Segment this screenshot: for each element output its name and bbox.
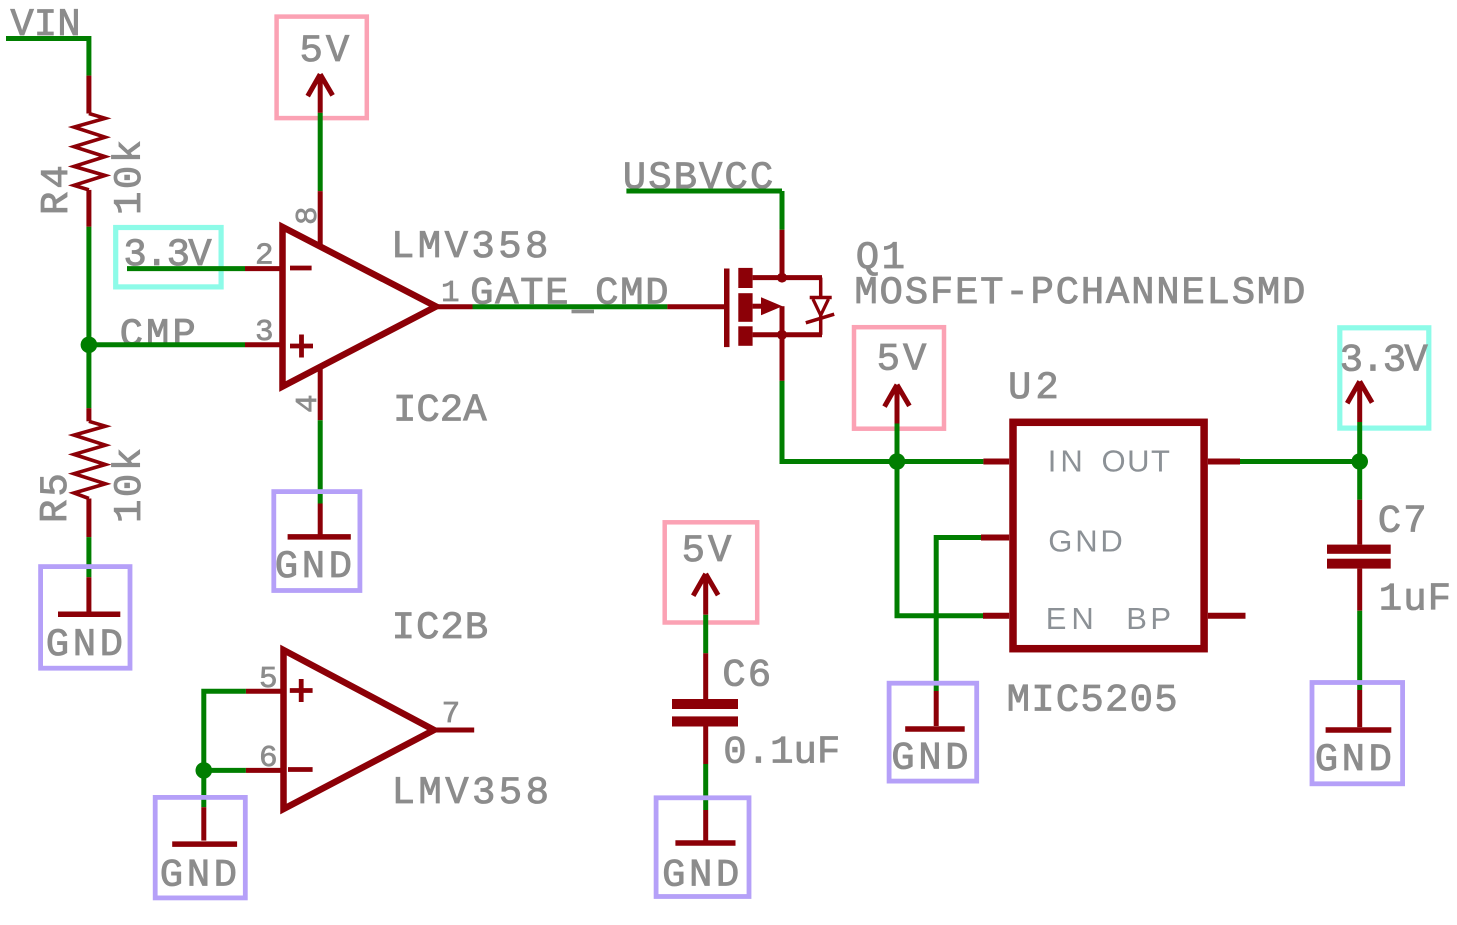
wire USBVCC horizontal <box>626 189 782 194</box>
ground symbol IC2B stem <box>201 807 206 840</box>
svg-text:10k: 10k <box>108 137 152 215</box>
svg-text:5V: 5V <box>682 529 735 573</box>
ground symbol C6 bar <box>675 840 735 846</box>
ground symbol U2 stem <box>934 691 939 726</box>
transistor Q1 top junction dot <box>777 273 787 283</box>
capacitor C6 top plate <box>672 699 738 709</box>
op-amp IC2A <box>283 227 437 387</box>
svg-text:GND: GND <box>160 854 241 898</box>
body diode triangle <box>813 299 829 315</box>
wire GND pin corner <box>936 538 981 692</box>
svg-text:C7: C7 <box>1378 500 1429 544</box>
pin 4 stub <box>318 366 323 420</box>
svg-text:8: 8 <box>291 206 326 225</box>
ground symbol C6 box <box>656 798 749 897</box>
wire drain lead <box>780 230 785 278</box>
svg-text:LMV358: LMV358 <box>391 225 552 269</box>
pin 6 stub <box>246 768 282 773</box>
transistor Q1 source arrow stub <box>753 304 763 309</box>
node 5V junction <box>889 453 906 470</box>
wire junction to EN corner <box>897 462 983 616</box>
transistor Q1 channel top <box>738 268 752 288</box>
resistor R4 <box>74 114 105 190</box>
svg-text:5V: 5V <box>300 29 353 73</box>
label GATE_CMD underscore <box>572 310 595 314</box>
transistor Q1 bottom junction dot <box>777 330 787 340</box>
svg-text:GND: GND <box>1048 524 1125 559</box>
IC U2 body <box>1013 422 1204 648</box>
svg-text:CMP: CMP <box>120 313 199 357</box>
svg-text:10k: 10k <box>108 445 152 523</box>
ground symbol C7 bar <box>1326 727 1392 733</box>
svg-text:0.1uF: 0.1uF <box>723 731 840 775</box>
svg-text:IN: IN <box>1048 444 1087 479</box>
svg-text:5V: 5V <box>877 338 930 382</box>
wire IC2B junction to ground <box>201 770 206 807</box>
transistor Q1 source arrow <box>761 297 782 315</box>
wire CMP node to R5 <box>86 345 91 408</box>
supply 3.3V label box left <box>116 228 221 287</box>
capacitor C7 bottom lead <box>1357 569 1362 611</box>
svg-text:GND: GND <box>662 853 743 897</box>
supply 3.3V arrow <box>1347 381 1372 422</box>
svg-text:3.3V: 3.3V <box>1340 338 1429 382</box>
capacitor C6 bottom plate <box>672 716 738 726</box>
svg-text:MOSFET-PCHANNELSMD: MOSFET-PCHANNELSMD <box>854 271 1307 315</box>
svg-text:IC2A: IC2A <box>393 389 487 433</box>
transistor Q1 channel middle <box>738 293 752 322</box>
supply 3.3V right box <box>1340 328 1429 428</box>
wire USBVCC vertical <box>780 191 785 230</box>
wire GATE_CMD <box>473 304 668 309</box>
wire R5 top lead <box>86 408 91 421</box>
wire 5V mid to junction <box>895 424 900 462</box>
capacitor C7 bottom plate <box>1327 559 1391 569</box>
op-amp IC2B <box>284 650 435 809</box>
ground symbol C7 box <box>1312 683 1403 784</box>
ground symbol U2 bar <box>905 726 965 732</box>
svg-text:OUT: OUT <box>1102 444 1172 479</box>
supply 5V mid box <box>854 327 944 429</box>
node OUT junction <box>1351 453 1368 470</box>
pin 2 stub <box>245 266 281 271</box>
svg-text:GND: GND <box>1315 738 1396 782</box>
transistor Q1 gate bar <box>724 269 730 348</box>
op-amp IC2A plus <box>290 335 313 358</box>
svg-text:U2: U2 <box>1008 366 1063 410</box>
pin GND stub <box>981 535 1009 541</box>
transistor Q1 bottom connection <box>753 332 822 337</box>
capacitor C7 top lead <box>1357 500 1362 545</box>
wire junction to IN <box>897 459 983 464</box>
wire 5V to pin8 <box>318 113 323 191</box>
wire 3.3V to pin2 <box>127 266 245 271</box>
supply 5V top arrow <box>308 74 333 113</box>
ground symbol IC2A box <box>274 492 360 591</box>
pin 5 stub <box>246 689 282 694</box>
pin IN stub <box>983 459 1009 465</box>
supply 5V C6 arrow <box>693 574 718 615</box>
wire R5 bottom lead <box>86 499 91 538</box>
wire VIN vertical green <box>86 36 91 76</box>
body diode cathode bar <box>810 296 832 300</box>
svg-text:MIC5205: MIC5205 <box>1007 679 1179 723</box>
svg-text:7: 7 <box>442 697 461 732</box>
supply 5V C6 box <box>665 522 758 622</box>
wire pin5 loop <box>204 691 246 770</box>
transistor Q1 drain lead down <box>780 335 785 381</box>
wire C7 to ground <box>1357 611 1362 690</box>
op-amp IC2B plus <box>290 679 313 702</box>
op-amp IC2A minus <box>290 266 312 271</box>
capacitor C7 top plate <box>1327 545 1391 554</box>
wire Q1 to IN corner <box>782 381 897 462</box>
wire CMP to pin3 <box>89 342 245 347</box>
transistor Q1 top connection <box>753 275 822 280</box>
supply 5V top box <box>277 17 367 119</box>
svg-text:GND: GND <box>891 736 972 780</box>
ground symbol IC2A stem <box>318 504 323 535</box>
pin BP stub <box>1208 613 1246 619</box>
body diode anode bar <box>806 314 834 323</box>
wire R4 to CMP node <box>86 227 91 345</box>
wire pin4 to ground <box>318 420 323 503</box>
transistor Q1 source vertical <box>780 306 785 335</box>
ground symbol R5 box <box>41 567 130 669</box>
svg-text:LMV358: LMV358 <box>392 771 553 815</box>
pin EN stub <box>983 613 1009 619</box>
body diode vertical top <box>819 278 823 297</box>
pin 8 stub <box>318 191 323 246</box>
wire VIN horizontal <box>6 36 89 41</box>
supply 5V mid arrow <box>885 385 910 424</box>
wire R4 bottom lead <box>86 190 91 227</box>
wire R4 top lead <box>86 76 91 114</box>
svg-text:R5: R5 <box>34 470 78 523</box>
pin 1 stub <box>436 304 473 309</box>
svg-text:IC2B: IC2B <box>392 606 490 650</box>
pin 3 stub <box>245 342 281 347</box>
ground symbol R5 bar <box>58 612 120 618</box>
ground symbol R5 stem <box>86 577 91 612</box>
ground symbol U2 box <box>889 683 977 781</box>
wire R5 to ground <box>86 537 91 577</box>
node IC2B junction <box>196 762 213 779</box>
pin OUT stub <box>1208 459 1240 465</box>
capacitor C6 bottom lead <box>703 727 708 765</box>
wire pin6 <box>204 768 246 773</box>
svg-text:GND: GND <box>275 545 356 589</box>
svg-text:1uF: 1uF <box>1379 578 1452 622</box>
svg-text:C6: C6 <box>722 654 773 698</box>
ground symbol IC2B box <box>155 797 245 898</box>
svg-text:R4: R4 <box>35 162 79 215</box>
svg-text:2: 2 <box>255 239 274 274</box>
svg-text:4: 4 <box>291 394 326 413</box>
capacitor C6 top lead <box>703 653 708 699</box>
svg-text:3: 3 <box>255 315 274 350</box>
wire junction to C7 <box>1357 462 1362 500</box>
body diode vertical bottom <box>819 315 823 335</box>
svg-text:EN: EN <box>1046 601 1099 636</box>
pin 7 stub <box>434 728 474 733</box>
wire 3.3V to junction <box>1357 422 1362 462</box>
wire gate stub <box>667 304 724 309</box>
resistor R5 <box>74 421 105 498</box>
ground symbol IC2B bar <box>172 841 237 847</box>
ground symbol IC2A bar <box>288 534 351 540</box>
transistor Q1 channel bottom <box>738 326 752 346</box>
op-amp IC2B minus <box>288 767 313 772</box>
node CMP junction <box>81 337 98 354</box>
ground symbol C6 stem <box>703 810 708 841</box>
wire 5V to C6 <box>703 615 708 654</box>
ground symbol C7 stem <box>1357 690 1362 727</box>
svg-text:GND: GND <box>46 623 127 667</box>
wire OUT to junction <box>1240 459 1360 464</box>
wire C6 to ground <box>703 764 708 810</box>
svg-text:BP: BP <box>1126 601 1174 636</box>
